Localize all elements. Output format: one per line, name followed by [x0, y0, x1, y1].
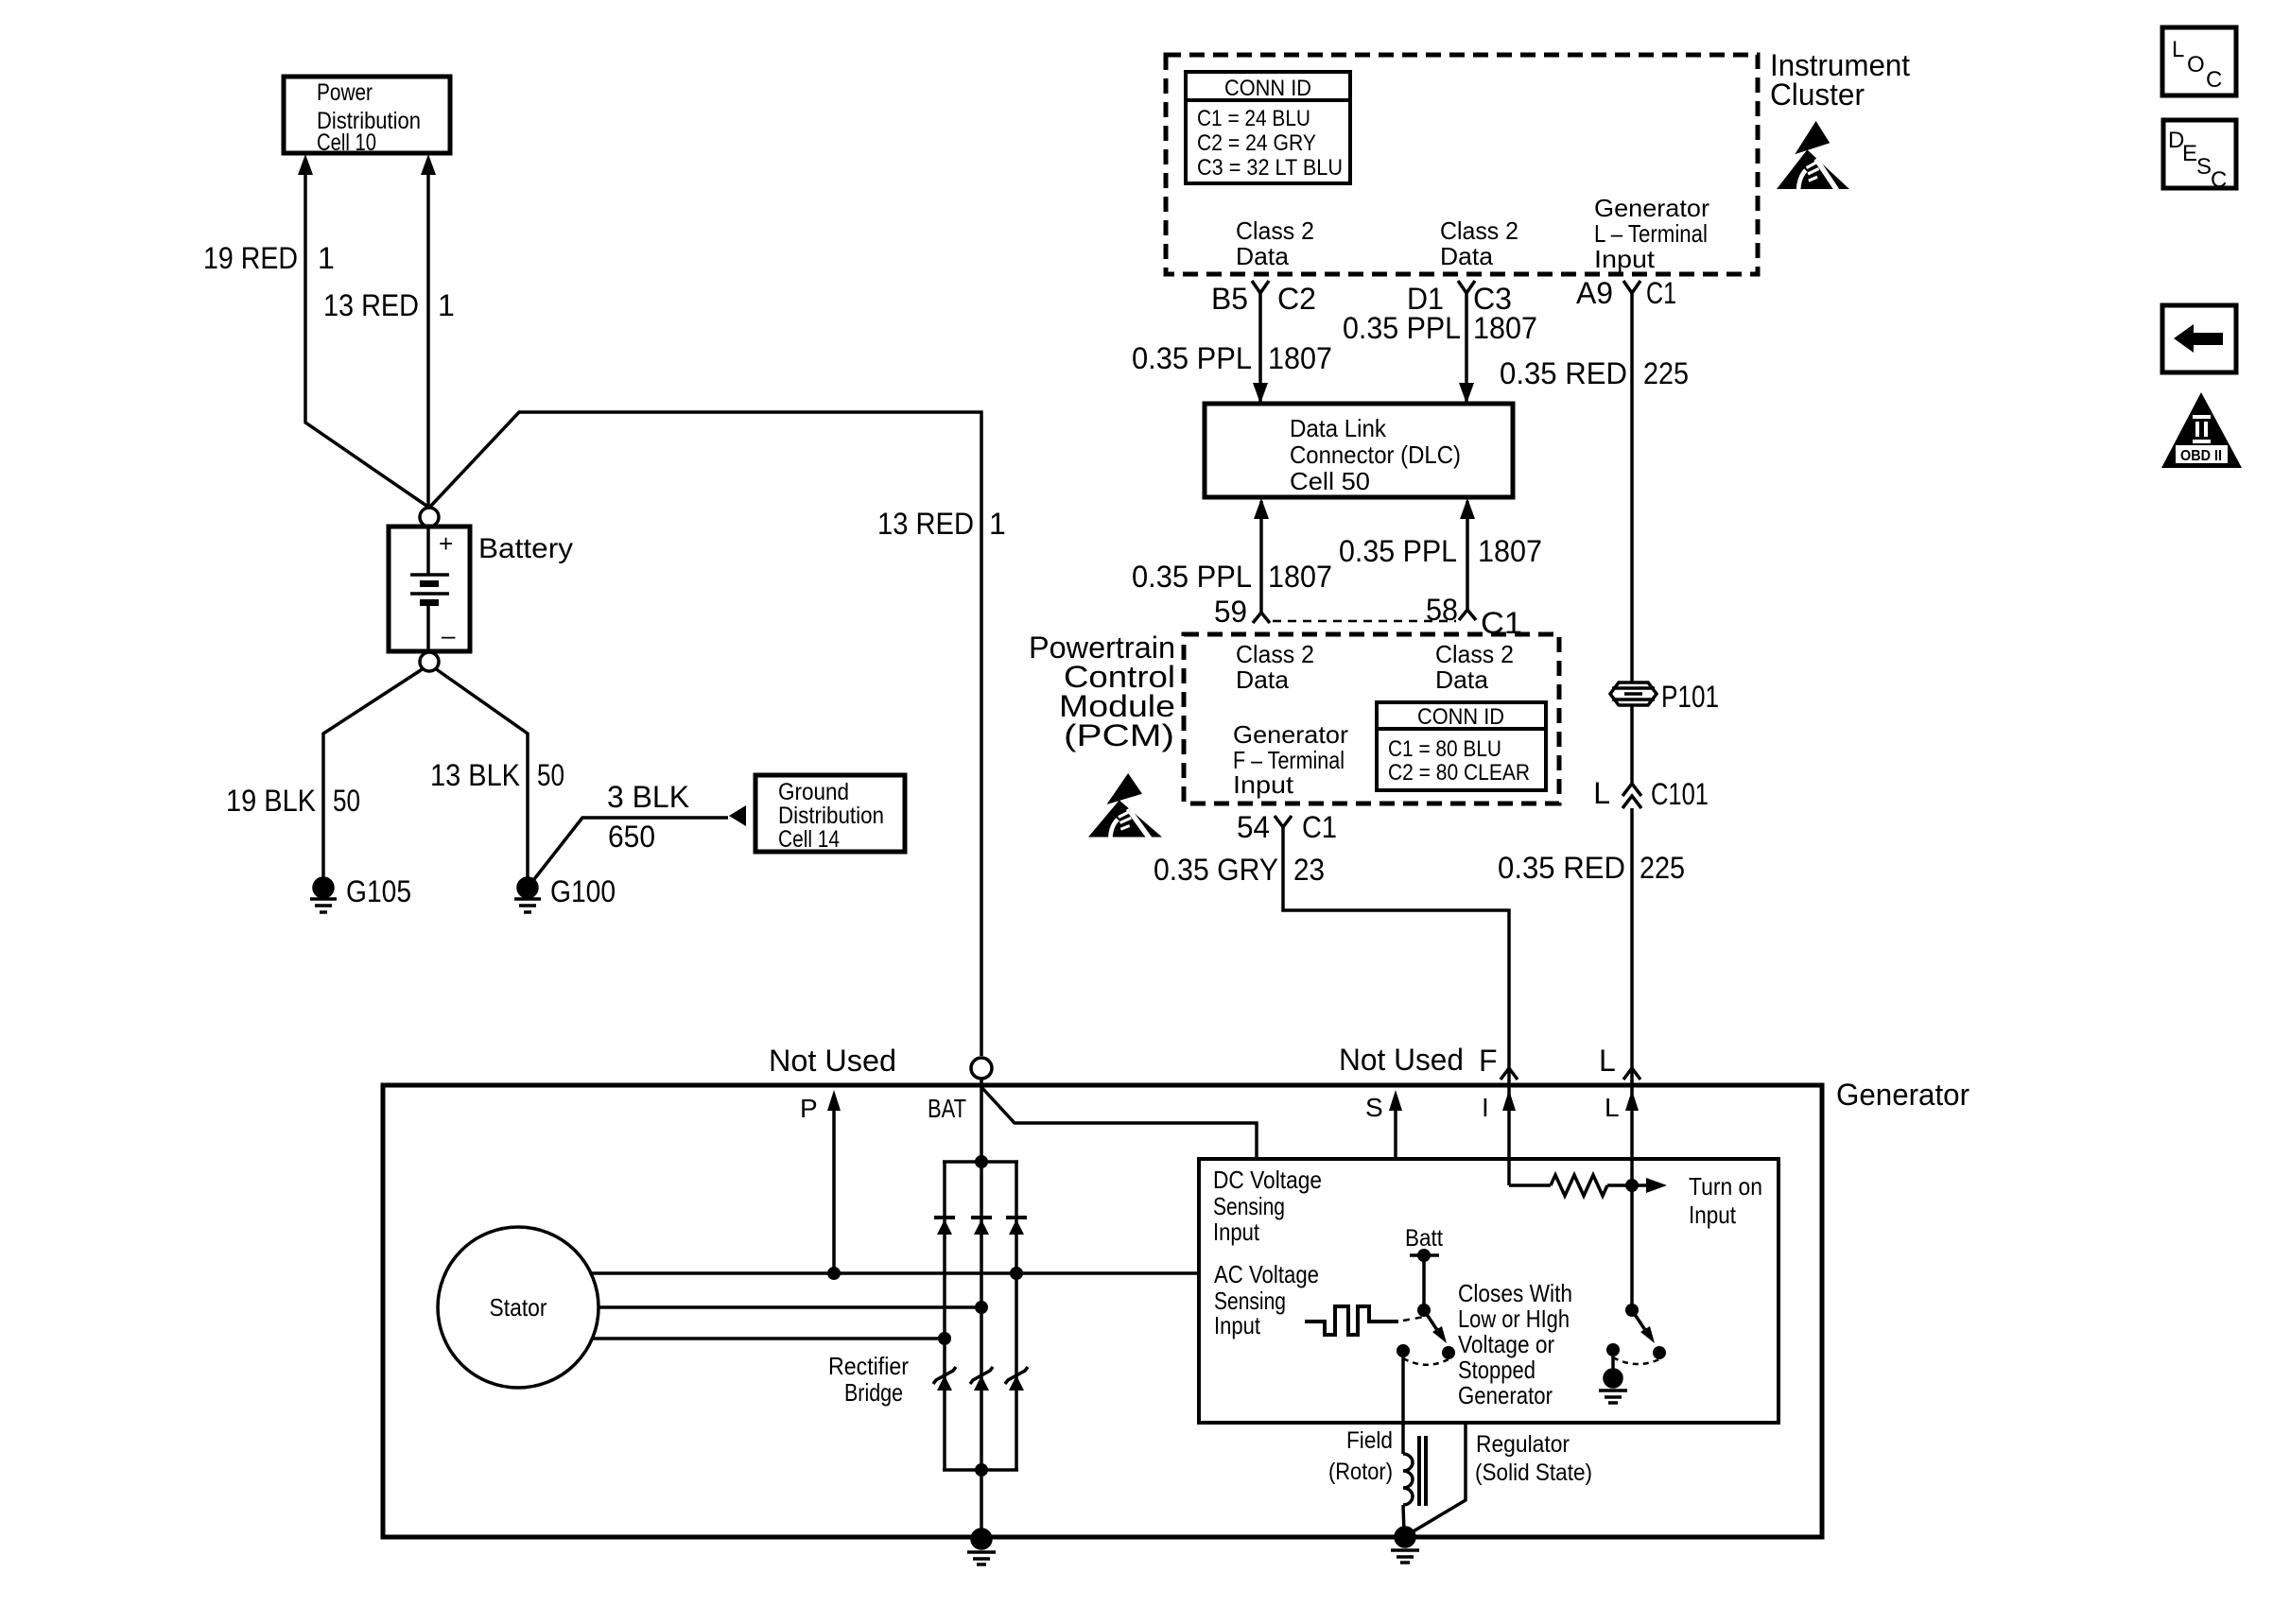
Data Link Connector (DLC) box	[1205, 404, 1513, 497]
svg-text:A9: A9	[1576, 276, 1613, 310]
svg-text:C1: C1	[1302, 810, 1337, 844]
svg-text:Data: Data	[1435, 665, 1489, 694]
svg-text:0.35 PPL: 0.35 PPL	[1132, 560, 1252, 594]
svg-text:DC Voltage: DC Voltage	[1213, 1166, 1322, 1194]
svg-text:Not Used: Not Used	[1339, 1043, 1464, 1077]
svg-text:Generator: Generator	[1836, 1078, 1969, 1112]
wire Batt to switch pivot	[1422, 1255, 1426, 1310]
back arrow box	[2162, 305, 2236, 372]
svg-text:P101: P101	[1661, 680, 1719, 714]
svg-text:1: 1	[318, 241, 335, 275]
svg-text:B5: B5	[1211, 282, 1248, 316]
svg-text:–: –	[442, 621, 456, 649]
svg-text:0.35 RED: 0.35 RED	[1500, 356, 1627, 390]
regulator box	[1199, 1159, 1778, 1423]
svg-text:Generator: Generator	[1458, 1381, 1553, 1409]
svg-text:C101: C101	[1651, 777, 1709, 811]
wire BAT terminal into rectifier bridge	[980, 1079, 983, 1162]
svg-text:Class 2: Class 2	[1440, 216, 1518, 245]
diode D4 (lower, avalanche)	[933, 1367, 956, 1391]
in-line connector L C101	[1593, 776, 1709, 811]
I arrowhead on F wire	[1502, 1090, 1516, 1111]
AC sensing pulse waveform	[1305, 1306, 1398, 1335]
svg-text:C1 = 24 BLU: C1 = 24 BLU	[1197, 106, 1310, 131]
wire 0.35 RED 225 (cluster A9 down to P101)	[1630, 293, 1634, 682]
svg-text:OBD II: OBD II	[2180, 448, 2222, 464]
svg-text:225: 225	[1640, 851, 1685, 885]
svg-text:E: E	[2182, 141, 2197, 166]
label Powertrain Control Module (PCM)	[1029, 631, 1175, 752]
generator BAT terminal node	[971, 1058, 992, 1079]
svg-text:1807: 1807	[1478, 534, 1542, 568]
wire 13 BLK 50 (battery negative to G100)	[435, 668, 528, 878]
battery B1	[389, 527, 470, 651]
svg-text:Input: Input	[1594, 245, 1656, 273]
junction at center rectifier rail	[975, 1301, 988, 1314]
svg-text:Stopped: Stopped	[1458, 1356, 1536, 1384]
svg-text:CONN ID: CONN ID	[1417, 704, 1504, 730]
label 3 BLK / 650	[607, 780, 689, 854]
svg-text:Distribution: Distribution	[778, 803, 884, 829]
svg-text:C1: C1	[1646, 276, 1676, 310]
ESD-sensitive symbol (instrument cluster)	[1777, 121, 1849, 194]
svg-text:AC Voltage: AC Voltage	[1214, 1260, 1319, 1288]
label 0.35 RED | 225 (lower)	[1498, 851, 1685, 885]
pin 54 C1	[1237, 810, 1337, 844]
svg-text:Bridge: Bridge	[844, 1378, 903, 1407]
svg-text:+: +	[439, 529, 453, 558]
svg-text:225: 225	[1643, 356, 1689, 390]
svg-text:54: 54	[1237, 810, 1270, 844]
svg-text:58: 58	[1426, 593, 1458, 627]
svg-text:Ground: Ground	[778, 779, 849, 805]
svg-text:Field: Field	[1346, 1427, 1393, 1454]
Power Distribution Cell 10 box	[284, 77, 450, 156]
label 13 RED | 1	[323, 288, 455, 322]
svg-text:C: C	[2211, 167, 2227, 193]
svg-text:Sensing: Sensing	[1213, 1192, 1285, 1220]
CONN ID table (instrument cluster)	[1186, 72, 1350, 183]
svg-text:Generator: Generator	[1233, 720, 1348, 749]
label Rectifier Bridge	[828, 1352, 909, 1407]
svg-text:Power: Power	[317, 79, 373, 106]
svg-text:Data Link: Data Link	[1290, 414, 1387, 442]
svg-text:23: 23	[1293, 853, 1325, 887]
svg-text:C2 = 24 GRY: C2 = 24 GRY	[1197, 130, 1316, 156]
svg-text:O: O	[2187, 52, 2205, 78]
svg-text:Turn on: Turn on	[1689, 1172, 1762, 1201]
svg-text:F: F	[1479, 1044, 1498, 1078]
svg-text:Cluster: Cluster	[1770, 78, 1865, 112]
diode D2 (upper)	[971, 1218, 992, 1235]
generator box	[383, 1085, 1822, 1537]
svg-text:1807: 1807	[1268, 560, 1332, 594]
svg-text:I: I	[1482, 1093, 1489, 1122]
svg-text:Cell 10: Cell 10	[317, 130, 376, 156]
label DC Voltage Sensing Input	[1213, 1166, 1322, 1246]
wire 13 RED 1 (battery positive to generator BAT terminal)	[429, 412, 981, 1056]
wire 0.35 PPL 1807 (PCM 59 to DLC, arrow up)	[1254, 498, 1269, 613]
rectifier bridge rails	[943, 1162, 1018, 1470]
wire regulator to ground	[1407, 1423, 1466, 1535]
label 13 RED | 1 (right)	[877, 507, 1006, 541]
label Class 2 Data (PCM right)	[1435, 640, 1514, 694]
label Class 2 Data (cluster left)	[1236, 216, 1314, 270]
label 19 RED | 1	[203, 241, 335, 275]
svg-text:Generator: Generator	[1594, 194, 1709, 222]
pin B5 C2	[1211, 281, 1316, 316]
label 0.35 PPL | 1807 (left)	[1132, 341, 1332, 375]
CONN ID table (PCM)	[1377, 702, 1546, 790]
off-page arrow to ground distribution	[729, 805, 746, 826]
Batt terminal bar	[1410, 1249, 1439, 1262]
OBD II symbol	[2161, 392, 2242, 468]
svg-text:L: L	[1593, 776, 1610, 810]
ground G105	[310, 874, 411, 912]
battery positive terminal node	[420, 508, 439, 527]
svg-text:(Solid State): (Solid State)	[1475, 1460, 1592, 1486]
svg-text:0.35 PPL: 0.35 PPL	[1132, 341, 1252, 375]
svg-text:50: 50	[333, 784, 360, 818]
battery negative terminal node	[420, 652, 439, 671]
lamp switch SW2	[1606, 1304, 1666, 1364]
svg-text:59: 59	[1214, 595, 1247, 629]
ground (SW2)	[1599, 1370, 1627, 1403]
label 0.35 RED | 225 (upper)	[1500, 356, 1689, 390]
wire 13 RED 1 (battery positive to power distribution, arrow up)	[421, 154, 436, 508]
svg-text:13 RED: 13 RED	[877, 507, 974, 541]
label AC Voltage Sensing Input	[1214, 1260, 1319, 1339]
svg-text:(Rotor): (Rotor)	[1328, 1459, 1393, 1485]
svg-text:Class 2: Class 2	[1236, 216, 1314, 245]
label Field (Rotor)	[1328, 1427, 1393, 1485]
svg-text:C2 = 80 CLEAR: C2 = 80 CLEAR	[1388, 760, 1530, 786]
label 19 BLK | 50	[226, 784, 360, 818]
ground (rectifier bridge)	[967, 1529, 996, 1564]
wire 3 BLK 650 (G100 to ground distribution)	[528, 818, 728, 888]
P arrow (stator to P terminal)	[827, 1090, 841, 1273]
svg-text:C: C	[2206, 67, 2222, 93]
DESC reference box	[2163, 120, 2236, 193]
svg-text:1807: 1807	[1473, 311, 1537, 345]
wire BAT branch to regulator DC sensing	[981, 1087, 1257, 1159]
svg-text:19 RED: 19 RED	[203, 241, 298, 275]
S arrow (regulator to S terminal)	[1389, 1090, 1402, 1159]
svg-text:Input: Input	[1214, 1311, 1261, 1339]
voltage switch SW1	[1397, 1304, 1455, 1365]
svg-text:0.35 RED: 0.35 RED	[1498, 851, 1625, 885]
svg-text:3 BLK: 3 BLK	[607, 780, 689, 814]
ground (field/regulator)	[1391, 1528, 1419, 1563]
svg-text:Batt: Batt	[1405, 1225, 1443, 1252]
stator phase wire 3	[592, 1337, 945, 1340]
pin 58 C1	[1426, 593, 1522, 640]
svg-text:C3 = 32 LT BLU: C3 = 32 LT BLU	[1197, 155, 1343, 181]
connector C1 dashed line between pins 59 and 58	[1273, 620, 1456, 623]
wire 0.35 RED 225 (C101 to generator L terminal)	[1630, 808, 1634, 1310]
svg-text:BAT: BAT	[928, 1094, 966, 1123]
svg-text:L: L	[1605, 1093, 1620, 1122]
svg-text:S: S	[1365, 1093, 1383, 1122]
label 0.35 PPL | 1807 (below DLC right)	[1339, 534, 1542, 568]
svg-text:Stator: Stator	[490, 1293, 547, 1322]
svg-text:G105: G105	[346, 874, 411, 908]
svg-text:650: 650	[608, 820, 655, 854]
diode D6 (lower, avalanche)	[1005, 1367, 1028, 1391]
ESD-sensitive symbol (PCM)	[1088, 773, 1162, 841]
pin 59	[1214, 595, 1270, 629]
junction L wire and resistor line	[1625, 1179, 1639, 1192]
svg-text:Data: Data	[1440, 242, 1494, 270]
stator phase wire 1	[591, 1271, 1199, 1275]
junction at P arrow	[827, 1267, 841, 1280]
LOC reference box	[2162, 27, 2236, 95]
generator terminal L pin	[1599, 1044, 1640, 1080]
svg-text:13 BLK: 13 BLK	[430, 758, 520, 792]
pin A9 C1	[1576, 276, 1676, 310]
svg-text:Data: Data	[1236, 242, 1290, 270]
svg-text:1: 1	[438, 288, 455, 322]
wire 0.35 GRY 23 (PCM 54 to generator F terminal)	[1283, 827, 1509, 1185]
wire SW2 contact to ground	[1611, 1350, 1615, 1373]
svg-text:L – Terminal: L – Terminal	[1594, 219, 1708, 248]
svg-text:L: L	[2172, 37, 2184, 62]
in-line connector P101	[1610, 680, 1719, 714]
label Generator L-Terminal Input	[1594, 194, 1709, 273]
svg-text:Input: Input	[1213, 1218, 1260, 1246]
field rotor coil L1	[1403, 1436, 1426, 1506]
label Closes With Low or HIgh Voltage or Stopped Generator	[1458, 1279, 1572, 1409]
svg-text:Input: Input	[1233, 770, 1294, 799]
label Regulator (Solid State)	[1475, 1431, 1592, 1486]
svg-text:S: S	[2196, 154, 2212, 180]
svg-text:CONN ID: CONN ID	[1224, 76, 1311, 101]
svg-text:0.35 PPL: 0.35 PPL	[1339, 534, 1457, 568]
diode D5 (lower, avalanche)	[970, 1367, 993, 1391]
svg-text:19 BLK: 19 BLK	[226, 784, 316, 818]
svg-text:Class 2: Class 2	[1435, 640, 1514, 668]
svg-text:Low or HIgh: Low or HIgh	[1458, 1304, 1570, 1333]
instrument cluster dashed box	[1166, 55, 1758, 274]
svg-text:Closes With: Closes With	[1458, 1279, 1572, 1307]
svg-text:P: P	[800, 1094, 818, 1123]
turn on input arrowhead	[1646, 1178, 1667, 1193]
svg-text:Class 2: Class 2	[1236, 640, 1314, 668]
generator terminal F pin	[1479, 1044, 1518, 1080]
wire 0.35 PPL 1807 (PCM 58 to DLC, arrow up)	[1460, 498, 1475, 610]
svg-text:13 RED: 13 RED	[323, 288, 419, 322]
svg-text:Battery: Battery	[478, 533, 573, 564]
label 0.35 PPL | 1807 (below DLC left)	[1132, 560, 1332, 594]
dashed link waveform to switch	[1403, 1317, 1424, 1321]
svg-text:1807: 1807	[1268, 341, 1332, 375]
powertrain control module dashed box	[1184, 634, 1559, 803]
wire 19 BLK 50 (battery negative to G105)	[323, 668, 424, 878]
svg-text:Cell 50: Cell 50	[1290, 467, 1370, 495]
wire SW1 contact to field coil	[1401, 1351, 1405, 1454]
label 0.35 GRY | 23	[1154, 853, 1325, 887]
svg-text:0.35 GRY: 0.35 GRY	[1154, 853, 1278, 887]
resistor (turn on input)	[1509, 1175, 1646, 1196]
junction at right rectifier rail	[1010, 1267, 1023, 1280]
label 0.35 PPL | 1807 (middle)	[1343, 311, 1537, 345]
junction top of bridge	[975, 1155, 988, 1168]
diode D3 (upper)	[1006, 1218, 1027, 1235]
stator phase wire 2	[599, 1305, 981, 1309]
label Turn on Input	[1689, 1172, 1762, 1229]
svg-text:G100: G100	[550, 874, 616, 908]
svg-text:50: 50	[537, 758, 564, 792]
label 13 BLK | 50	[430, 758, 564, 792]
Ground Distribution Cell 14 box	[755, 775, 905, 853]
wire 0.35 RED 225 (P101 to C101)	[1630, 705, 1634, 785]
junction bottom of bridge	[975, 1463, 988, 1477]
junction at left rectifier rail	[938, 1332, 951, 1345]
ground G100	[514, 874, 616, 912]
label Class 2 Data (PCM left)	[1236, 640, 1314, 694]
svg-text:Connector (DLC): Connector (DLC)	[1290, 441, 1461, 469]
svg-text:(PCM): (PCM)	[1064, 718, 1174, 752]
wire 0.35 PPL 1807 (cluster D1 to DLC, arrow down)	[1459, 293, 1474, 404]
wire 19 RED 1 (battery positive to power distribution, arrow up)	[298, 154, 429, 508]
svg-text:Not Used: Not Used	[769, 1044, 896, 1078]
wire bridge to chassis ground	[980, 1470, 983, 1537]
svg-text:Data: Data	[1236, 665, 1290, 694]
label Instrument Cluster	[1770, 48, 1910, 112]
wire 0.35 PPL 1807 (cluster B5 to DLC, arrow down)	[1253, 293, 1268, 404]
label Generator F-Terminal Input	[1233, 720, 1348, 799]
diode D1 (upper)	[934, 1218, 955, 1235]
svg-text:Cell 14: Cell 14	[778, 826, 840, 853]
svg-text:C1 = 80 BLU: C1 = 80 BLU	[1388, 736, 1501, 762]
svg-text:1: 1	[989, 507, 1006, 541]
svg-text:L: L	[1599, 1044, 1616, 1078]
svg-text:Input: Input	[1689, 1201, 1737, 1229]
pin D1 C3	[1407, 281, 1512, 316]
label Class 2 Data (cluster right)	[1440, 216, 1518, 270]
L arrowhead on L wire	[1625, 1090, 1639, 1111]
svg-text:Voltage or: Voltage or	[1458, 1330, 1554, 1358]
svg-text:Rectifier: Rectifier	[828, 1352, 909, 1380]
svg-text:C2: C2	[1277, 282, 1316, 316]
svg-text:Regulator: Regulator	[1476, 1431, 1570, 1458]
svg-text:0.35 PPL: 0.35 PPL	[1343, 311, 1461, 345]
stator	[438, 1227, 599, 1388]
wire coil to ground	[1403, 1505, 1404, 1533]
